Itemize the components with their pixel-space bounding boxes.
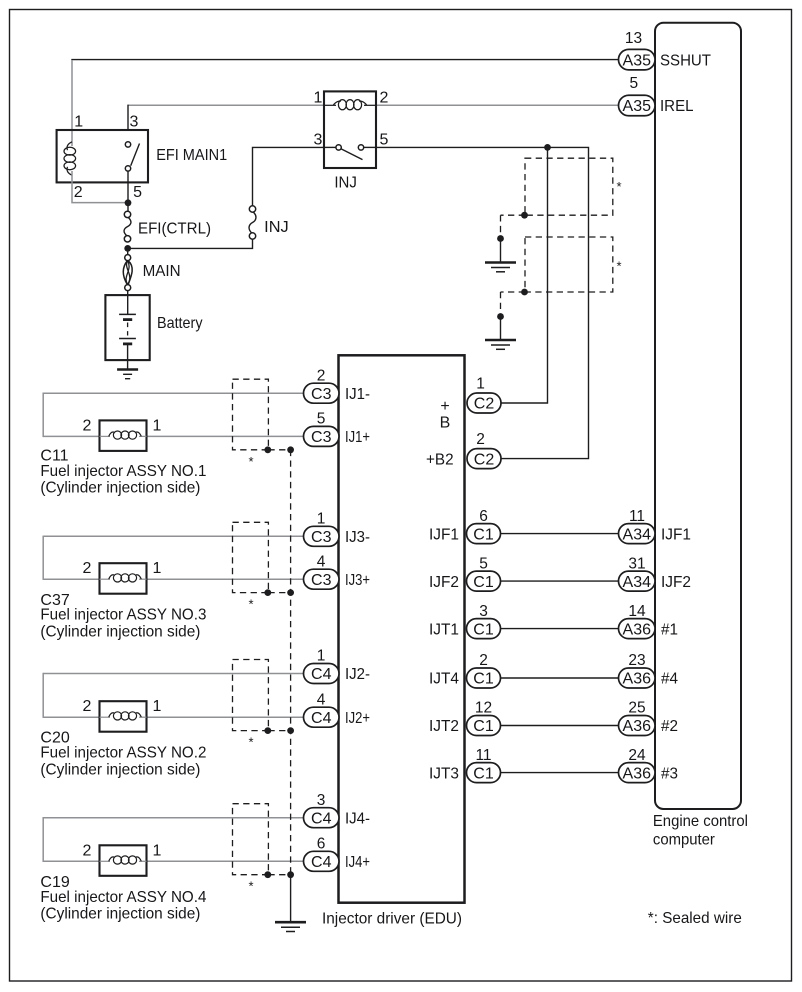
svg-text:25: 25 xyxy=(628,700,645,717)
svg-text:C4: C4 xyxy=(311,666,332,683)
sealed wire shield box injector 4 xyxy=(233,804,269,875)
wire injector 1 minus row (gray) xyxy=(43,392,303,394)
svg-text:3: 3 xyxy=(479,603,488,620)
svg-text:IJ4+: IJ4+ xyxy=(345,854,370,871)
connector A34 pin 31 (IJF2) xyxy=(619,555,692,591)
wire IJT2 row xyxy=(501,725,619,727)
svg-text:INJ: INJ xyxy=(264,219,289,236)
wire EFI MAIN1 pin5 down xyxy=(127,171,129,212)
wire junction to MAIN link xyxy=(127,248,129,254)
svg-text:+B2: +B2 xyxy=(426,451,454,468)
shield B drain: dashed to ground xyxy=(497,289,528,340)
svg-text:#2: #2 xyxy=(661,718,678,735)
svg-text:2: 2 xyxy=(83,842,92,859)
connector C1 pin 2 (IJT4) xyxy=(429,652,501,688)
fuel injector component 2 (coil) xyxy=(83,560,162,594)
svg-text:C3: C3 xyxy=(311,572,332,589)
svg-text:MAIN: MAIN xyxy=(143,263,181,280)
fuse EFI(CTRL) xyxy=(124,211,211,242)
svg-text:A35: A35 xyxy=(623,52,652,69)
shield 1 junction dots and dashed bridge xyxy=(264,446,294,453)
svg-text:C1: C1 xyxy=(473,526,494,543)
svg-text:12: 12 xyxy=(475,700,492,717)
svg-text:*: * xyxy=(248,879,253,894)
svg-text:#1: #1 xyxy=(661,621,678,638)
wire INJ fuse to relay pin3 xyxy=(253,147,325,206)
svg-text:IJF1: IJF1 xyxy=(661,526,691,543)
svg-text:*: * xyxy=(616,179,621,194)
wire injector 1 plus row right (gray) xyxy=(147,435,304,437)
engine control computer box xyxy=(655,23,741,809)
wire EFI MAIN1 pin3 lead xyxy=(127,105,129,130)
wire IJT3 row xyxy=(501,772,619,774)
connector C1 pin 12 (IJT2) xyxy=(429,700,501,736)
svg-text:C1: C1 xyxy=(473,765,494,782)
svg-text:1: 1 xyxy=(153,842,162,859)
svg-text:A36: A36 xyxy=(623,671,652,688)
svg-text:IJF2: IJF2 xyxy=(661,574,691,591)
fuse INJ xyxy=(249,206,289,239)
wire injector 3 plus row left (gray) xyxy=(43,716,99,718)
svg-text:1: 1 xyxy=(153,560,162,577)
shield A drain: dashed to ground xyxy=(497,212,528,262)
svg-text:1: 1 xyxy=(476,376,485,393)
svg-text:5: 5 xyxy=(133,184,142,201)
junction +B branch xyxy=(544,144,551,151)
wire injector 2 plus row left (gray) xyxy=(43,578,99,580)
svg-text:A35: A35 xyxy=(623,98,652,115)
svg-text:C3: C3 xyxy=(311,529,332,546)
fuel injector component 4 (coil) xyxy=(83,842,162,876)
wire injector 4 left vertical (gray) xyxy=(42,817,44,862)
connector C2 pin1 +B xyxy=(440,376,501,432)
svg-text:2: 2 xyxy=(83,417,92,434)
svg-text:2: 2 xyxy=(317,367,326,384)
svg-text:C1: C1 xyxy=(473,718,494,735)
svg-text:3: 3 xyxy=(130,114,139,131)
svg-text:23: 23 xyxy=(628,652,645,669)
label injector 1 xyxy=(40,447,206,496)
svg-text:*: * xyxy=(248,597,253,612)
svg-text:11: 11 xyxy=(475,747,491,764)
svg-text:A36: A36 xyxy=(623,765,652,782)
connector C4 pin 1 (IJ2-) xyxy=(304,648,371,684)
wire injector 3 left vertical (gray) xyxy=(42,673,44,718)
svg-text:IJ3-: IJ3- xyxy=(345,529,370,546)
svg-text:Fuel injector ASSY NO.2: Fuel injector ASSY NO.2 xyxy=(40,745,206,762)
svg-text:6: 6 xyxy=(479,508,488,525)
wire SSHUT net: horizontal to A35 xyxy=(71,59,618,61)
svg-text:IJ4-: IJ4- xyxy=(345,810,370,827)
ground shield B xyxy=(485,340,516,349)
svg-text:5: 5 xyxy=(317,411,326,428)
connector C1 pin 5 (IJF2) xyxy=(429,555,501,591)
svg-text:C3: C3 xyxy=(311,386,332,403)
svg-text:C4: C4 xyxy=(311,854,332,871)
wire injector 4 minus row (gray) xyxy=(43,817,303,819)
sealed wire shield box injector 3 xyxy=(233,660,269,731)
svg-text:A34: A34 xyxy=(623,574,652,591)
sealed wire shield box B xyxy=(525,237,613,292)
label injector 2 xyxy=(40,592,206,640)
svg-text:#4: #4 xyxy=(661,671,678,688)
connector C3 pin 4 (IJ3+) xyxy=(304,553,371,589)
svg-text:Fuel injector ASSY NO.4: Fuel injector ASSY NO.4 xyxy=(40,889,206,906)
svg-text:13: 13 xyxy=(625,30,642,47)
connector A34 pin 11 (IJF1) xyxy=(619,508,692,544)
connector C4 pin 3 (IJ4-) xyxy=(304,792,371,828)
wire junction to INJ fuse xyxy=(128,239,253,249)
svg-text:2: 2 xyxy=(83,698,92,715)
svg-text:1: 1 xyxy=(74,114,83,131)
wire injector 2 plus row right (gray) xyxy=(147,578,304,580)
wire IJF1 row xyxy=(501,533,619,535)
wire injector 1 plus row left (gray) xyxy=(43,435,99,437)
svg-text:*: * xyxy=(248,735,253,750)
svg-text:*: Sealed wire: *: Sealed wire xyxy=(648,910,742,927)
svg-text:Fuel injector ASSY NO.3: Fuel injector ASSY NO.3 xyxy=(40,607,206,624)
svg-text:1: 1 xyxy=(317,511,326,528)
label injector 3 xyxy=(40,730,206,779)
fuel injector component 1 (coil) xyxy=(83,417,162,451)
svg-text:Engine control: Engine control xyxy=(653,813,748,830)
junction pin5/fuse xyxy=(125,199,132,206)
svg-text:A36: A36 xyxy=(623,621,652,638)
svg-text:C11: C11 xyxy=(40,447,68,464)
connector A36 pin 25 (#2) xyxy=(619,700,679,736)
svg-text:4: 4 xyxy=(317,553,326,570)
svg-text:C1: C1 xyxy=(473,621,494,638)
svg-text:1: 1 xyxy=(153,698,162,715)
svg-text:1: 1 xyxy=(317,648,326,665)
relay EFI MAIN1 xyxy=(57,114,228,201)
svg-text:C3: C3 xyxy=(311,429,332,446)
svg-text:*: * xyxy=(616,259,621,274)
wire INJ relay pin2 to A35 IREL (gray) xyxy=(376,104,619,106)
svg-text:C1: C1 xyxy=(473,574,494,591)
svg-text:C2: C2 xyxy=(474,451,495,468)
dashed shield drain vertical xyxy=(290,450,292,875)
svg-text:1: 1 xyxy=(153,417,162,434)
wire INJ pin5 to +B/+B2 xyxy=(376,147,589,458)
wire MAIN to battery xyxy=(127,291,129,315)
svg-text:IJ2+: IJ2+ xyxy=(345,710,370,727)
svg-text:(Cylinder injection side): (Cylinder injection side) xyxy=(40,906,200,923)
connector A35 pin5 IREL xyxy=(619,75,694,116)
connector C3 pin 5 (IJ1+) xyxy=(304,411,371,447)
svg-text:3: 3 xyxy=(317,792,326,809)
ground battery xyxy=(117,370,138,379)
connector C1 pin 11 (IJT3) xyxy=(429,747,501,783)
connector A36 pin 14 (#1) xyxy=(619,603,679,639)
wire EFI MAIN1 pin1 vertical (gray) xyxy=(71,60,73,142)
svg-text:5: 5 xyxy=(479,555,488,572)
svg-text:6: 6 xyxy=(317,836,326,853)
svg-text:IJ1+: IJ1+ xyxy=(345,429,370,446)
wire injector 2 minus row (gray) xyxy=(43,535,303,537)
wire EFI MAIN1 pin2 to pin5 junction (gray) xyxy=(72,182,126,202)
connector C4 pin 6 (IJ4+) xyxy=(304,836,371,872)
svg-text:C4: C4 xyxy=(311,710,332,727)
label Engine control computer xyxy=(653,813,748,848)
connector C1 pin 6 (IJF1) xyxy=(429,508,501,544)
battery xyxy=(105,295,202,369)
svg-text:Fuel injector ASSY NO.1: Fuel injector ASSY NO.1 xyxy=(40,463,206,480)
svg-text:24: 24 xyxy=(628,747,646,764)
svg-text:SSHUT: SSHUT xyxy=(660,52,711,69)
sealed wire shield box injector 1 xyxy=(233,379,269,450)
svg-text:5: 5 xyxy=(629,75,638,92)
wire branch to +B xyxy=(501,147,548,403)
svg-text:2: 2 xyxy=(74,184,83,201)
wire IJF2 row xyxy=(501,580,619,582)
svg-text:5: 5 xyxy=(380,132,389,149)
wire IREL net: EFI MAIN1 pin3 to INJ relay pin1 (gray) xyxy=(128,104,324,106)
connector A35 pin13 SSHUT xyxy=(619,30,712,70)
connector A36 pin 23 (#4) xyxy=(619,652,679,688)
svg-text:IJ1-: IJ1- xyxy=(345,386,370,403)
wire injector 2 left vertical (gray) xyxy=(42,536,44,580)
svg-text:IJF1: IJF1 xyxy=(429,526,459,543)
svg-text:IJ2-: IJ2- xyxy=(345,666,370,683)
svg-text:2: 2 xyxy=(380,90,389,107)
connector C1 pin 3 (IJT1) xyxy=(429,603,501,639)
svg-text:(Cylinder injection side): (Cylinder injection side) xyxy=(40,623,200,640)
svg-text:C4: C4 xyxy=(311,810,332,827)
svg-text:IJT4: IJT4 xyxy=(429,671,459,688)
label injector 4 xyxy=(40,874,206,923)
svg-text:4: 4 xyxy=(317,691,326,708)
wire injector 3 minus row (gray) xyxy=(43,673,303,675)
svg-text:#3: #3 xyxy=(661,765,678,782)
svg-text:+: + xyxy=(440,398,449,415)
shield 3 junction dots and dashed bridge xyxy=(264,727,294,734)
svg-text:(Cylinder injection side): (Cylinder injection side) xyxy=(40,761,200,778)
svg-text:A36: A36 xyxy=(623,718,652,735)
svg-text:A34: A34 xyxy=(623,526,652,543)
ground shield drain xyxy=(275,922,306,931)
wire shield drain to ground xyxy=(290,875,292,923)
connector C2 pin2 +B2 xyxy=(426,431,501,469)
shield 4 junction dots and dashed bridge xyxy=(264,871,294,878)
fuel injector component 3 (coil) xyxy=(83,698,162,732)
svg-text:(Cylinder injection side): (Cylinder injection side) xyxy=(40,479,200,496)
svg-text:computer: computer xyxy=(653,831,716,848)
svg-text:IJF2: IJF2 xyxy=(429,574,459,591)
svg-text:14: 14 xyxy=(628,603,646,620)
injector driver EDU box xyxy=(339,355,465,902)
svg-text:2: 2 xyxy=(476,431,485,448)
svg-text:*: * xyxy=(248,454,253,469)
connector C3 pin 1 (IJ3-) xyxy=(304,511,371,547)
connector C3 pin 2 (IJ1-) xyxy=(304,367,371,403)
shield 2 junction dots and dashed bridge xyxy=(264,589,294,596)
svg-text:Battery: Battery xyxy=(157,315,203,332)
svg-text:2: 2 xyxy=(479,652,488,669)
wire injector 4 plus row right (gray) xyxy=(147,860,304,862)
junction below EFI(CTRL) xyxy=(124,245,131,252)
svg-text:EFI(CTRL): EFI(CTRL) xyxy=(138,220,211,237)
svg-text:IJT1: IJT1 xyxy=(429,621,459,638)
svg-text:3: 3 xyxy=(314,132,323,149)
svg-text:IJT2: IJT2 xyxy=(429,718,459,735)
svg-text:IJT3: IJT3 xyxy=(429,765,459,782)
wire injector 4 plus row left (gray) xyxy=(43,860,99,862)
svg-text:2: 2 xyxy=(83,560,92,577)
relay INJ xyxy=(314,90,389,192)
wire injector 3 plus row right (gray) xyxy=(147,716,304,718)
svg-text:11: 11 xyxy=(629,508,645,525)
svg-text:INJ: INJ xyxy=(334,175,357,192)
svg-text:B: B xyxy=(440,414,451,431)
svg-text:IREL: IREL xyxy=(660,98,694,115)
svg-text:Injector driver (EDU): Injector driver (EDU) xyxy=(322,910,462,927)
wire IJT4 row xyxy=(501,677,619,679)
svg-text:C1: C1 xyxy=(473,671,494,688)
wire IJT1 row xyxy=(501,628,619,630)
wire injector 1 left vertical (gray) xyxy=(42,393,44,438)
connector A36 pin 24 (#3) xyxy=(619,747,679,783)
svg-text:31: 31 xyxy=(628,555,645,572)
fusible link MAIN xyxy=(123,255,180,291)
svg-text:1: 1 xyxy=(314,90,323,107)
sealed wire shield box A xyxy=(525,158,613,215)
svg-text:C2: C2 xyxy=(474,396,495,413)
sealed wire shield box injector 2 xyxy=(233,522,269,592)
svg-text:IJ3+: IJ3+ xyxy=(345,572,370,589)
svg-text:EFI MAIN1: EFI MAIN1 xyxy=(156,147,227,164)
connector C4 pin 4 (IJ2+) xyxy=(304,691,371,727)
ground shield A xyxy=(485,263,516,272)
